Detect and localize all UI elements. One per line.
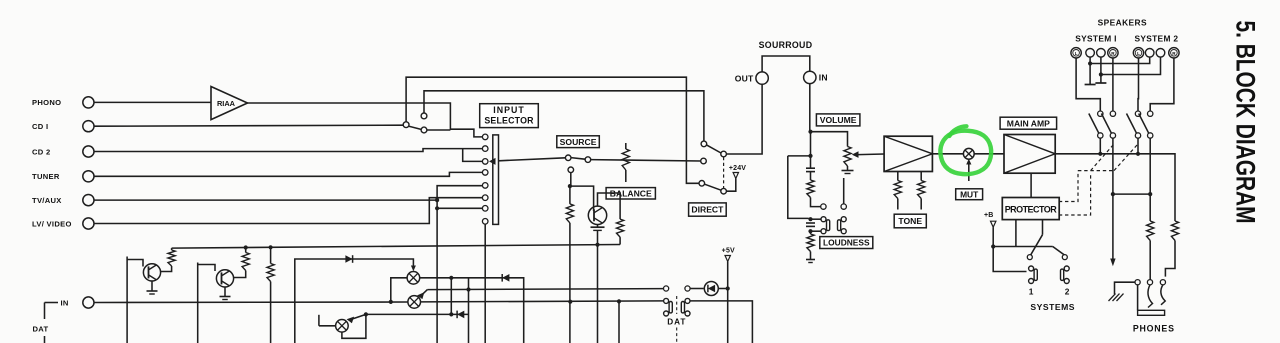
svg-text:L: L [1137, 51, 1140, 56]
wire PHONO to RIAA [94, 101, 211, 103]
wire gnd bus 2 [1101, 57, 1161, 74]
node relay4 junction [1148, 192, 1152, 196]
node crosslink junction [449, 276, 453, 280]
wire IN line [94, 301, 408, 304]
wire supply rail [172, 245, 620, 249]
wire IN down [809, 83, 811, 131]
diode D4 LED [704, 282, 718, 296]
wire diode to +5V rail [718, 288, 727, 290]
svg-text:SOURCE: SOURCE [560, 137, 597, 147]
input jack TUNER [83, 171, 94, 182]
wire relay1 to bus [1099, 138, 1101, 154]
switch DIRECT lower contact [701, 158, 707, 164]
svg-text:IN: IN [819, 73, 828, 83]
switch DIRECT2 contact [699, 181, 705, 187]
wire volume top junction [788, 155, 811, 157]
contact system2 [1062, 255, 1067, 260]
node relay2 junction [1111, 192, 1115, 196]
mut label [956, 189, 983, 200]
relay contact top 4 [1148, 111, 1153, 116]
wire SP1 L to relay [1076, 58, 1100, 111]
wire +B branch lower [993, 247, 1026, 272]
resistor R-phones1 [1147, 221, 1154, 241]
wire Q3 collector [598, 193, 621, 219]
svg-text:DAT: DAT [667, 318, 686, 327]
wire OUT to direct switch [726, 84, 762, 154]
wire IN line right [421, 301, 664, 302]
wire L1 right leg [420, 278, 524, 343]
switch SOURCE contact C [568, 167, 574, 173]
wire SP1 R to relay [1112, 58, 1114, 111]
contact loudness B [841, 204, 846, 209]
wire protector out 2 [1042, 220, 1044, 235]
arrow into L1 [411, 266, 416, 272]
node loudness junction 1 [808, 217, 812, 221]
node relay1 junction [1098, 152, 1102, 156]
node dat rail junction [568, 300, 572, 304]
resistor R-tone1 [897, 172, 899, 181]
switch SOURCE contact B [585, 157, 591, 163]
diode D3 [457, 311, 464, 319]
wire S-REC C link [427, 129, 451, 131]
wire Q1 emitter [151, 281, 153, 291]
arrow down feed [1110, 259, 1115, 267]
input selector contact 5 [482, 183, 488, 189]
capacitor C-loud2 [806, 222, 815, 224]
amplifier block MAIN AMP [1004, 135, 1055, 174]
wire cross link [450, 278, 452, 315]
terminal SP2 gnd2 [1156, 49, 1165, 58]
svg-text:5. BLOCK DIAGRAM: 5. BLOCK DIAGRAM [1231, 21, 1261, 224]
wire protector cross 1 [1053, 247, 1065, 255]
wire mut to main amp [974, 153, 1004, 155]
svg-text:PHONO: PHONO [32, 98, 61, 107]
svg-text:SOURROUD: SOURROUD [759, 40, 813, 50]
wire lamp3 stub [318, 315, 320, 326]
terminal SP1 L [1071, 48, 1081, 58]
wire SP1 gnd2 down [1100, 57, 1102, 83]
contact system1 [1027, 255, 1032, 260]
svg-text:SELECTOR: SELECTOR [484, 116, 534, 126]
wire relay link bottom [1113, 193, 1150, 195]
resistor R-tone2 [920, 172, 922, 181]
switch SOURCE blade [571, 158, 585, 160]
link protector dashed 1 [1059, 171, 1078, 202]
wire selector to source switch [499, 158, 566, 161]
switch DIRECT2 blade [705, 184, 721, 190]
wire top REC A [406, 77, 699, 183]
jack SYSTEMS 2 [1064, 266, 1069, 271]
source label [557, 136, 600, 148]
terminal SP2 L [1133, 48, 1143, 58]
wire DAT box left [618, 301, 620, 343]
phones contact spring 1 [1148, 285, 1153, 308]
relay blade 2 [1101, 114, 1111, 134]
svg-text:PROTECTOR: PROTECTOR [1005, 205, 1058, 215]
wire direct gang link [723, 157, 725, 188]
terminal SP1 gnd1 [1086, 49, 1095, 58]
input selector wiper arrow [489, 158, 496, 165]
ground phones [1115, 282, 1136, 294]
volume label [816, 114, 860, 126]
node rail junction R2 [244, 245, 248, 249]
wire Q1 base feed [126, 257, 128, 343]
node volume chain junction [808, 154, 812, 158]
svg-text:DIRECT: DIRECT [691, 205, 724, 215]
svg-text:LV/ VIDEO: LV/ VIDEO [32, 219, 72, 228]
wire phones sleeve [1137, 285, 1139, 311]
wire gnd bus 1 [1090, 57, 1150, 63]
input jack CD I [83, 121, 94, 132]
contact phones 1 [1135, 280, 1140, 285]
wire contact 7 stub [437, 207, 482, 209]
node DAT box junction [617, 299, 621, 303]
svg-text:TONE: TONE [898, 216, 922, 226]
wire TV/AUX feed [94, 199, 437, 201]
contact phones 2 [1147, 280, 1152, 285]
resistor R-loud1 [807, 180, 814, 198]
svg-text:+B: +B [984, 212, 994, 219]
wire L3 arrow slant [349, 314, 366, 320]
loudness label [820, 237, 873, 249]
wire source to direct [591, 160, 701, 161]
switch S-REC contact C [421, 127, 427, 133]
relay contact bottom 4 [1148, 133, 1153, 138]
wire to tap contacts [811, 198, 821, 207]
svg-text:MUT: MUT [960, 189, 979, 199]
wire vertical 595 [597, 230, 599, 343]
wire cap to resistor [810, 172, 812, 180]
power +B triangle [991, 221, 996, 227]
input selector contact 7 [482, 206, 488, 212]
wire SP2 L to relay [1137, 58, 1140, 111]
wire DAT box right [690, 301, 752, 343]
wire L3 bottom loop [342, 314, 366, 338]
jack LOUDNESS right [841, 217, 846, 222]
transistor Q3 [588, 206, 606, 224]
input selector contact 8 [482, 219, 488, 225]
jack IN [804, 71, 816, 83]
input jack IN [83, 297, 94, 308]
relay contact top 3 [1135, 111, 1140, 116]
wire Q3 emitter [597, 225, 599, 228]
wire dat chain down [569, 245, 571, 343]
svg-text:SYSTEM 2: SYSTEM 2 [1134, 33, 1178, 43]
tone label [894, 214, 926, 228]
lamp L3 [336, 320, 349, 333]
wire Q2 emitter [224, 287, 226, 297]
relay blade 3 [1127, 114, 1137, 134]
input jack PHONO [83, 97, 94, 108]
switch DIRECT blade [706, 145, 721, 153]
svg-text:OUT: OUT [735, 73, 754, 83]
node L2 junction [389, 300, 393, 304]
svg-text:MAIN AMP: MAIN AMP [1007, 118, 1050, 128]
ground Q3 [591, 226, 605, 228]
wire TV/AUX to contact 5 [437, 186, 482, 343]
resistor R-phones2 [1171, 221, 1178, 241]
balance label [606, 188, 655, 199]
svg-text:PHONES: PHONES [1133, 324, 1175, 334]
wire loudness down [810, 231, 812, 234]
relay contact bottom 3 [1135, 133, 1140, 138]
node TV/AUX junction [435, 198, 439, 202]
switch DIRECT common [721, 151, 727, 157]
wire L1 left leg [391, 278, 407, 302]
wire loudness branch [788, 156, 809, 219]
wire SP1 gnd1 down [1089, 57, 1091, 84]
node rail junction R3 [269, 245, 273, 249]
wire TUNER to contact 4 [94, 172, 482, 176]
phones contact spring 2 [1161, 285, 1165, 305]
power +5V triangle [725, 256, 730, 262]
contact DAT A1 [664, 286, 669, 291]
node +5V junction [726, 286, 730, 290]
svg-text:LOUDNESS: LOUDNESS [823, 238, 870, 248]
potentiometer VOLUME [844, 147, 851, 167]
wire L2 slant [420, 290, 427, 297]
node chain top [810, 132, 812, 169]
wire contact 8 down [484, 224, 486, 343]
wire relay4 down [1149, 138, 1151, 221]
input selector label [480, 104, 539, 128]
wire +5V rail [727, 262, 729, 343]
protector block [1002, 198, 1059, 220]
wire Q2 base feed [197, 263, 199, 343]
ground speaker bar 2 [1095, 82, 1106, 84]
ground loudness [806, 259, 815, 261]
contact DAT A2 [685, 286, 690, 291]
wire jack left leg top [811, 218, 821, 220]
node L3 junction 1 [364, 312, 368, 316]
main amp label [1000, 117, 1057, 129]
resistor R-collector Q3 [617, 219, 624, 237]
volume wiper arrow [852, 151, 859, 158]
mut arrow [968, 163, 970, 181]
switch DIRECT2 common [721, 188, 727, 194]
diode D2 [502, 274, 509, 282]
relay contact bottom 2 [1110, 133, 1115, 138]
wire RIAA output [248, 103, 483, 137]
node IN junction [808, 130, 812, 134]
node gnd2 junction [1099, 72, 1103, 76]
input jack LV/ VIDEO [83, 218, 94, 229]
wire loudness tail [810, 252, 812, 260]
input selector contact 2 [482, 146, 488, 152]
relay blade 4 [1139, 114, 1149, 134]
wire vertical x468 [468, 278, 470, 343]
lamp L1 [407, 272, 420, 285]
input selector contact 6 [482, 195, 488, 201]
node x468 junction [466, 287, 470, 291]
wire main amp to protector [1030, 173, 1032, 197]
node contact7 junction [435, 206, 439, 210]
terminal SP1 gnd2 [1097, 49, 1106, 58]
switch DIRECT upper contact [701, 141, 707, 147]
switch S-REC blade [409, 126, 421, 129]
input selector contact 3 [482, 159, 488, 165]
svg-text:CD 2: CD 2 [32, 147, 51, 156]
ground Q1 [147, 290, 158, 292]
svg-text:IN: IN [61, 298, 69, 307]
input selector contact 4 [482, 170, 488, 176]
jack SYSTEMS 1 [1029, 266, 1034, 271]
wire relay3 to bus [1137, 138, 1139, 154]
wire protector out 1 [1015, 220, 1017, 247]
link dashed slant 2 [1114, 145, 1138, 171]
wire tone to mut [932, 153, 963, 155]
annotation green circle [940, 131, 991, 174]
contact loudness A [821, 204, 826, 209]
wire source C down [570, 173, 572, 187]
node loudness junction 2 [808, 229, 812, 233]
svg-text:1: 1 [1029, 287, 1034, 297]
wire to volume pot [811, 132, 848, 147]
wire L3 left leg [319, 325, 336, 327]
wire +24V to switch [726, 178, 735, 191]
terminal SP2 gnd1 [1145, 49, 1154, 58]
DAT bracket wire [45, 302, 59, 304]
switch S-REC contact A [403, 122, 409, 128]
wire base feed [570, 186, 594, 211]
amplifier block TONE [884, 136, 932, 171]
node +B junction [991, 244, 995, 248]
svg-text:RIAA: RIAA [217, 99, 236, 108]
input jack CD 2 [83, 146, 94, 157]
wire DAT A2 to diode [690, 288, 703, 290]
wire lamp3 rail [366, 313, 469, 315]
wire protector cross 2 [1031, 235, 1043, 255]
switch MUT [963, 148, 974, 159]
jack LOUDNESS left [821, 217, 826, 222]
diode D1 [345, 255, 352, 263]
svg-text:SYSTEM I: SYSTEM I [1075, 33, 1117, 43]
node base junction [568, 184, 572, 188]
wire SP2 R to relay [1150, 58, 1174, 111]
terminal SP2 R [1169, 48, 1179, 58]
lamp L2 [408, 296, 421, 309]
resistor R-source [569, 186, 571, 204]
link dashed crossbar [1078, 170, 1114, 172]
svg-text:TV/AUX: TV/AUX [32, 196, 62, 205]
relay contact top 1 [1098, 111, 1103, 116]
dat gang dashed [676, 296, 678, 314]
svg-text:CD I: CD I [32, 122, 48, 131]
resistor R2 [245, 248, 247, 253]
wire contact2-contact3 link [463, 149, 483, 162]
node L3 junction 2 [449, 312, 453, 316]
phones plug bar [1138, 310, 1165, 315]
wire lamp box edge [295, 259, 414, 343]
wire jack left leg bottom [811, 230, 821, 232]
capacitor C-loud1 [806, 167, 815, 169]
link dashed slant 1 [1091, 145, 1114, 171]
svg-text:VOLUME: VOLUME [820, 115, 857, 125]
contact phones 3 [1160, 280, 1165, 285]
ground volume pot [842, 170, 854, 172]
node relay3 junction [1136, 152, 1140, 156]
transistor Q1 [143, 264, 160, 281]
wire main amp output [1055, 154, 1175, 221]
wire CD I to switch [94, 125, 403, 126]
input selector contact 1 [482, 134, 488, 140]
wire relay2 down [1112, 138, 1114, 258]
wire LV/VIDEO to contact 6 [94, 198, 482, 224]
svg-text:SPEAKERS: SPEAKERS [1098, 17, 1147, 27]
relay contact bottom 1 [1098, 133, 1103, 138]
wire top REC B [424, 91, 704, 141]
link protector dashed 2 [1059, 175, 1091, 215]
jack DAT right [685, 298, 690, 303]
svg-text:SYSTEMS: SYSTEMS [1030, 302, 1075, 312]
potentiometer BALANCE [625, 143, 627, 149]
jack OUT [756, 72, 768, 84]
resistor R3 [270, 247, 272, 263]
op-amp RIAA [211, 87, 248, 120]
wire mid rail [427, 289, 663, 290]
svg-text:L: L [1075, 51, 1078, 56]
svg-text:DAT: DAT [33, 325, 49, 334]
svg-text:+5V: +5V [722, 248, 735, 255]
relay contact top 2 [1110, 111, 1115, 116]
wire +B down [992, 227, 994, 246]
switch S-REC contact B [421, 113, 427, 119]
svg-text:2: 2 [1065, 287, 1070, 297]
transistor Q2 [216, 270, 233, 287]
input jack TV/AUX [83, 195, 94, 206]
power +24V triangle [733, 173, 738, 179]
wire loudness B up [843, 178, 845, 204]
svg-text:TUNER: TUNER [32, 172, 60, 181]
node rail junction 595 [595, 243, 599, 247]
wire CD2 to contact 2 [94, 149, 482, 152]
switch SOURCE contact A [565, 155, 571, 161]
svg-text:INPUT: INPUT [493, 105, 524, 115]
node gnd1 junction [1088, 61, 1092, 65]
ground Q2 [220, 296, 231, 298]
relay blade 1 [1089, 114, 1099, 134]
ground speaker bar 1 [1085, 84, 1096, 86]
terminal SP1 R [1108, 48, 1118, 58]
sourroud bracket wire [762, 56, 810, 72]
resistor R-loud2 [807, 234, 814, 252]
jack DAT left [664, 298, 669, 303]
direct label [689, 203, 727, 216]
resistor R1 [171, 248, 173, 250]
svg-text:+24V: +24V [729, 165, 746, 172]
input selector bus bar [493, 135, 499, 225]
